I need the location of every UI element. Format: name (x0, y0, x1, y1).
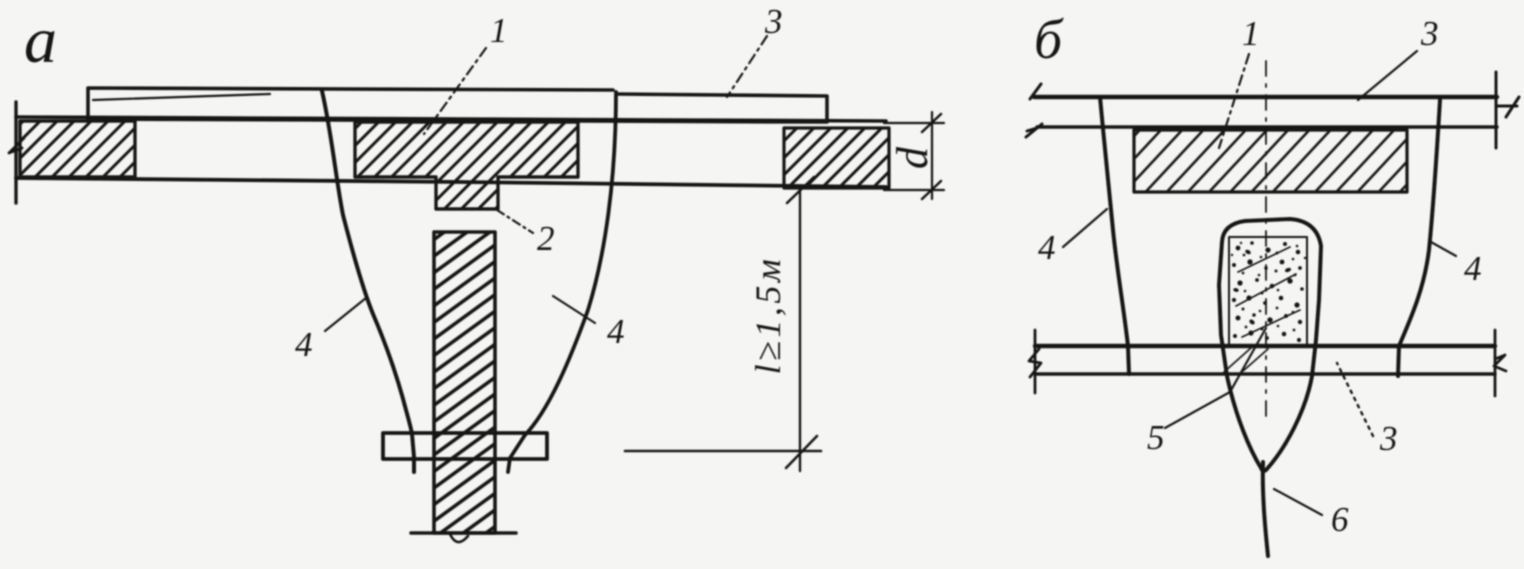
slab right hatched section (784, 128, 889, 188)
svg-text:а: а (24, 4, 57, 77)
slab left hatched section (20, 121, 135, 177)
leader for 4 left (325, 298, 366, 331)
pipe break mark (450, 534, 468, 542)
wrap curve 4 left b (1100, 97, 1129, 374)
dimension d extension top (884, 122, 944, 124)
oakum plug outline (1219, 219, 1321, 471)
svg-text:1: 1 (490, 11, 508, 50)
svg-text:4: 4 (295, 325, 313, 364)
svg-text:2: 2 (537, 219, 555, 258)
leader for 4 b left (1063, 209, 1107, 247)
leader for 3 b top (1358, 51, 1417, 100)
wrap curve 4 right (508, 92, 616, 472)
oakum stipple (1231, 241, 1306, 342)
lower panel top line (1035, 344, 1495, 348)
pipe (434, 232, 495, 533)
svg-text:4: 4 (607, 312, 625, 351)
long dimension line l (799, 190, 801, 471)
lower panel bottom line (1035, 372, 1495, 375)
leader for 4 right (553, 296, 595, 323)
leader for 5 (1165, 328, 1266, 428)
svg-text:5: 5 (1147, 418, 1165, 457)
leader for 2 (497, 210, 533, 233)
dimension d tick top (922, 114, 941, 132)
oakum inner box (1229, 237, 1307, 347)
leader for 1 b (1219, 54, 1249, 148)
pipe bottom end line (411, 531, 516, 535)
leader for 1 (424, 48, 486, 134)
oakum texture strokes (1224, 247, 1300, 372)
lower panel right break mark (1494, 330, 1506, 396)
wrap curve 4 left (322, 91, 414, 472)
upper panel right break mark (1496, 72, 1519, 148)
svg-text:4: 4 (1038, 228, 1056, 267)
svg-text:6: 6 (1331, 500, 1349, 539)
floor board inner stroke (93, 94, 270, 100)
floor board 3 (88, 88, 827, 122)
leader for 3 b bottom (1337, 363, 1373, 436)
leader for 6 (1274, 489, 1322, 515)
leader for 4 b right (1431, 242, 1456, 256)
mortar block 1 right (1134, 130, 1407, 192)
clamp 2 (383, 433, 547, 459)
svg-text:d: d (888, 146, 937, 169)
svg-text:l≥1,5м: l≥1,5м (748, 256, 788, 375)
sleeve flange 1 with tab (355, 122, 578, 209)
svg-text:4: 4 (1464, 249, 1482, 288)
long dimension tick bottom (786, 436, 817, 468)
leader for 3 (727, 36, 767, 97)
dimension d tick bottom (922, 181, 941, 199)
center axis line (1265, 61, 1267, 417)
lower panel left break mark (1029, 330, 1041, 393)
svg-text:3: 3 (1379, 419, 1398, 458)
upper panel left break marks (1026, 84, 1042, 137)
slab top line (16, 117, 886, 121)
dimension d extension bottom (884, 189, 944, 191)
svg-text:3: 3 (1420, 14, 1439, 53)
slab left end tick (14, 102, 17, 203)
svg-text:б: б (1034, 9, 1064, 71)
slab bottom line (16, 178, 886, 187)
upper panel top line (1034, 95, 1497, 99)
svg-text:1: 1 (1242, 14, 1260, 53)
wrap curve 4 right b (1398, 100, 1440, 376)
dimension d line (931, 112, 933, 199)
long dimension tick top (787, 177, 814, 203)
slab left end break mark (9, 138, 24, 153)
wrapped tail 6 (1263, 462, 1268, 556)
upper panel bottom line (1037, 125, 1497, 128)
long dimension datum line (625, 450, 821, 453)
